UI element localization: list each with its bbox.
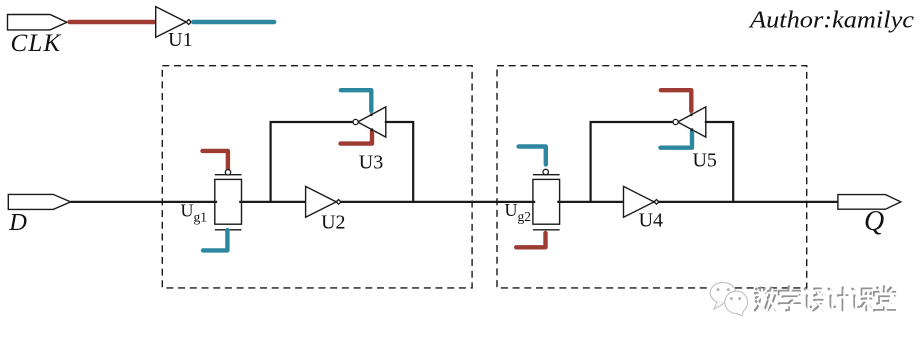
- svg-text:U2: U2: [321, 212, 345, 234]
- svg-text:U5: U5: [692, 149, 716, 171]
- svg-text:U3: U3: [359, 151, 383, 173]
- svg-text:U4: U4: [639, 210, 663, 232]
- svg-text:U1: U1: [168, 29, 192, 51]
- svg-text:Author:kamilyc: Author:kamilyc: [748, 8, 915, 34]
- svg-text:Q: Q: [864, 206, 884, 237]
- svg-text:CLK: CLK: [11, 30, 62, 57]
- svg-text:D: D: [8, 209, 27, 236]
